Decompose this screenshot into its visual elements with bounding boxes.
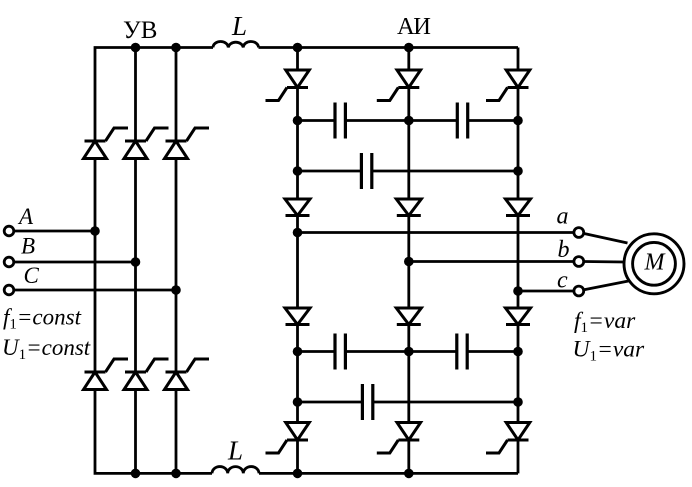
svg-text:B: B	[21, 234, 35, 259]
svg-text:L: L	[227, 436, 243, 466]
svg-text:A: A	[17, 204, 34, 229]
svg-text:L: L	[231, 11, 247, 41]
svg-text:c: c	[557, 267, 568, 293]
svg-text:b: b	[558, 237, 570, 263]
svg-text:M: M	[644, 250, 667, 276]
svg-text:УВ: УВ	[123, 17, 157, 44]
svg-text:АИ: АИ	[397, 13, 430, 40]
svg-text:f1=var: f1=var	[574, 308, 636, 336]
svg-text:U1=var: U1=var	[573, 337, 646, 365]
svg-text:U1=const: U1=const	[2, 335, 91, 363]
svg-text:a: a	[557, 204, 569, 230]
svg-text:f1=const: f1=const	[3, 305, 82, 333]
svg-text:C: C	[24, 263, 40, 288]
